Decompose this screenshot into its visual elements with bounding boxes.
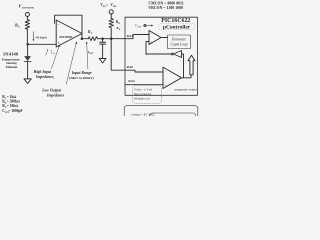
svg-text:Element: Element	[6, 65, 18, 69]
resistor RA	[25, 20, 29, 30]
wire inverter input from comparator output	[182, 54, 184, 78]
node inverter wire joint	[146, 53, 148, 55]
wire VREF arrow	[146, 25, 152, 27]
svg-text:comparator output: comparator output	[174, 87, 197, 91]
svg-text:≈0.1mA: ≈0.1mA	[35, 36, 47, 40]
wire diode to ground	[27, 61, 29, 79]
resistor RX	[88, 37, 97, 41]
wire RA3 to comparator C2	[125, 35, 149, 39]
svg-text:High Input: High Input	[33, 70, 53, 74]
callout leader input range to rail	[87, 43, 88, 69]
svg-text:t charge = R C ln(2): t charge = R C ln(2)	[131, 112, 155, 116]
svg-text:= 1000pF: = 1000pF	[8, 109, 23, 113]
svg-text:Impedance,: Impedance,	[35, 75, 54, 79]
diode D1 1N4148	[24, 56, 31, 61]
svg-text:V trip = ¾ V ref: V trip = ¾ V ref	[134, 89, 153, 92]
ground (open triangle) under diode	[24, 79, 31, 84]
svg-text:Impedance: Impedance	[46, 93, 65, 97]
bottom-right callout bubble outer	[124, 106, 198, 122]
svg-text:(30mV to 850mV): (30mV to 850mV)	[69, 76, 94, 80]
node Vsource terminal	[25, 13, 29, 17]
node VREF terminal	[144, 25, 146, 27]
wire C2 output to firmware box	[161, 37, 168, 39]
dashed formula bubble	[133, 86, 162, 104]
callout bracket near op-amp input	[52, 50, 56, 54]
svg-text:= 200kΩ: = 200kΩ	[7, 100, 20, 104]
node A junction	[26, 43, 29, 46]
wire terminal to RB	[110, 14, 112, 19]
PIC16C622 box	[125, 17, 198, 95]
svg-text:Firmware: Firmware	[171, 38, 187, 42]
ground (open triangle) under capacitor	[99, 59, 106, 64]
svg-text:CMCON = 0000 0011: CMCON = 0000 0011	[148, 2, 184, 6]
wire RB to RA0 pin	[111, 28, 125, 70]
svg-text:RA0: RA0	[127, 65, 134, 69]
svg-text:Input Range: Input Range	[71, 71, 92, 75]
node op-amp output junction	[81, 37, 84, 40]
op-amp U1 MCP601 triangle	[56, 20, 82, 47]
capacitor CINT bottom lead	[102, 44, 104, 58]
svg-text:ref ladder set): ref ladder set)	[134, 98, 150, 101]
wire RA0 to comparator C1	[125, 70, 163, 72]
node cap junction	[101, 37, 104, 40]
node VDD terminal	[109, 10, 113, 14]
wire op-amp output to rail	[82, 38, 88, 40]
resistor RB	[109, 19, 113, 29]
svg-text:DD: DD	[113, 6, 117, 8]
wire inverter output to C2	[146, 53, 172, 55]
callout leader to diode node	[46, 51, 48, 56]
wire RA2 to comparator C1	[125, 84, 163, 86]
svg-text:VRCON = 1100 1000: VRCON = 1100 1000	[148, 6, 183, 10]
svg-text:RA3: RA3	[127, 34, 134, 38]
svg-text:+: +	[150, 41, 152, 45]
inverter U3	[174, 51, 182, 58]
op-amp U1 feedback wire	[55, 15, 82, 39]
svg-text:−: −	[150, 32, 152, 36]
svg-text:1N4148: 1N4148	[3, 51, 19, 56]
capacitor CINT plates	[100, 41, 106, 43]
bottom-right callout bubble inner	[150, 113, 196, 125]
wire RX to PIC RA3 pin	[98, 38, 125, 40]
comparator C1	[163, 67, 182, 88]
wire C2 plus input from inverter	[146, 42, 149, 55]
callout leader low output impedance	[66, 43, 76, 84]
svg-text:+: +	[165, 84, 167, 88]
svg-text:MCP601: MCP601	[59, 35, 72, 39]
wire C1 output	[182, 75, 192, 78]
comparator C2	[149, 31, 161, 45]
svg-text:RA2: RA2	[128, 79, 135, 83]
node RB junction	[110, 37, 113, 40]
svg-text:Low Output: Low Output	[41, 89, 62, 93]
svg-text:−: −	[165, 70, 167, 74]
svg-text:(due to internal: (due to internal	[134, 93, 152, 96]
svg-text:= 1kΩ: = 1kΩ	[7, 95, 17, 99]
svg-text:INT: INT	[89, 53, 94, 55]
svg-text:Count Loop: Count Loop	[170, 43, 187, 47]
capacitor CINT top lead	[102, 39, 104, 42]
diode D1 1N4148 anode wire	[27, 44, 29, 56]
svg-text:A: A	[18, 25, 20, 28]
wire node A to op-amp + input	[28, 43, 57, 45]
svg-text:= 10kΩ: = 10kΩ	[7, 104, 19, 108]
wire terminal to RA	[26, 17, 28, 20]
firmware count loop box	[168, 35, 191, 49]
svg-text:X: X	[91, 32, 93, 35]
arrow to counter (hollow up arrow)	[188, 55, 195, 75]
wire RA to node A	[26, 29, 28, 44]
callout leader high input impedance	[51, 46, 59, 69]
current arrow 0.1mA	[32, 32, 34, 40]
svg-text:=: =	[106, 3, 108, 7]
svg-text:BIOSENSE: BIOSENSE	[22, 6, 34, 9]
